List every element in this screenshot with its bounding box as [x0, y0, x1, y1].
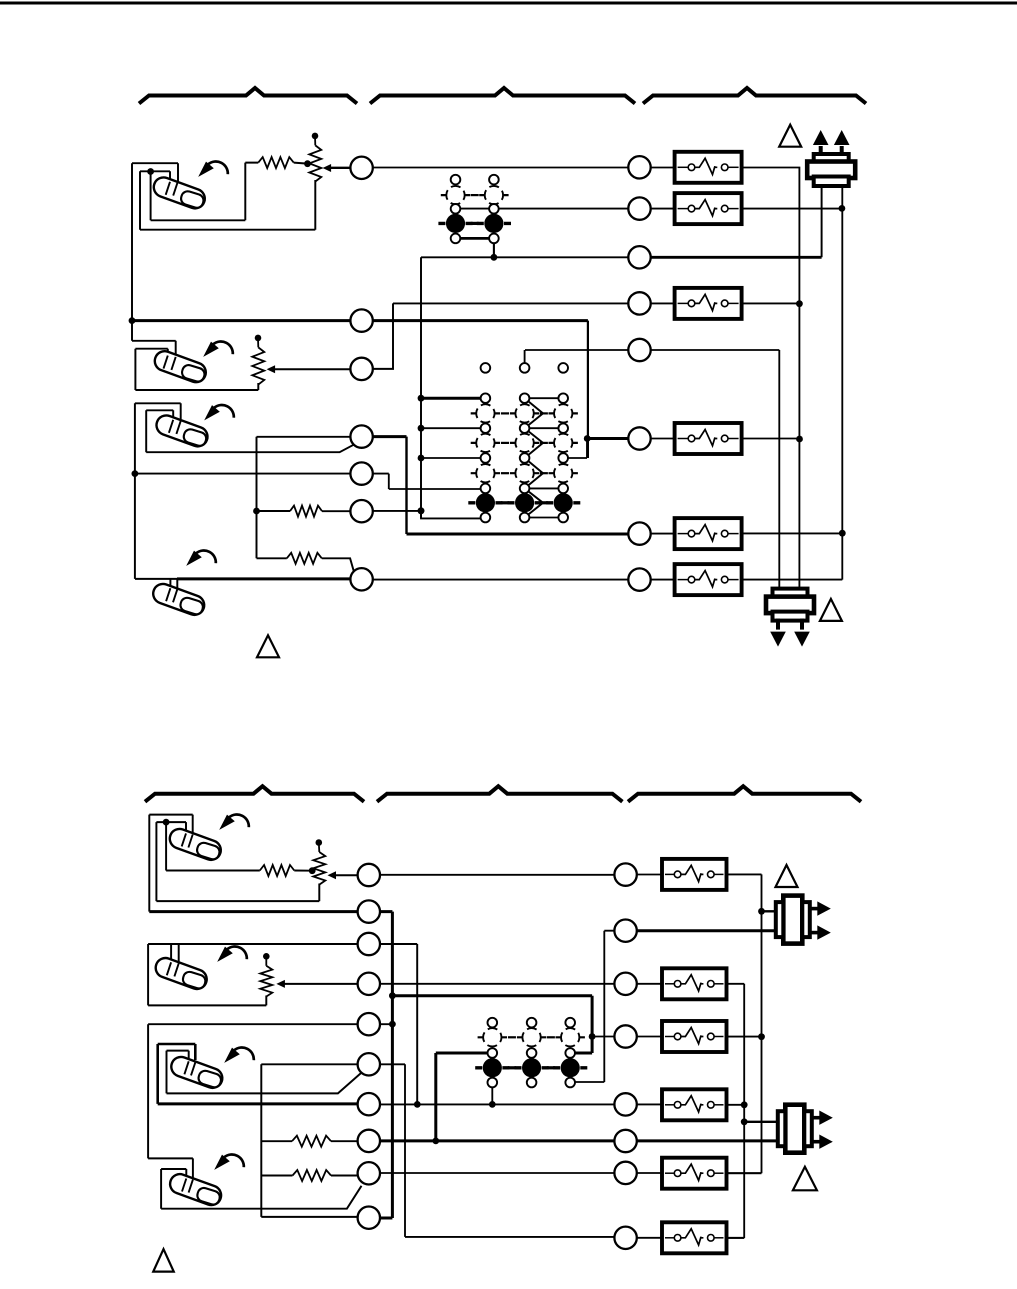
curved arrow bulb4	[186, 550, 216, 565]
curved arrow bulb3	[204, 405, 234, 420]
brace group 3 (bottom diagram)	[628, 786, 861, 802]
arrowhead pot2 wiper	[267, 365, 276, 373]
thermostat terminal BL10	[358, 1207, 380, 1229]
bulb1 electrode stubs	[166, 182, 178, 196]
relay contact block upper - open contacts	[441, 186, 470, 204]
relay terminal TR2	[628, 197, 650, 219]
wire R8 box output	[742, 186, 843, 580]
wire row3 terminal R3 bus	[421, 256, 628, 258]
wire matrix-b top bus	[392, 996, 592, 1053]
thermostat terminal BL5	[358, 1013, 380, 1035]
junction dot R2 output	[839, 205, 846, 212]
resistor bR2h	[292, 1136, 331, 1147]
wire mercury switch 2 lead b	[135, 349, 258, 390]
relay terminal BR1	[614, 863, 636, 885]
curved arrow bulb2	[203, 341, 233, 356]
thermostat terminal BL8	[358, 1130, 380, 1152]
wire row L6	[261, 1064, 614, 1237]
wire c6 to matrix	[373, 510, 421, 512]
wire R6 feed	[587, 437, 628, 440]
relay terminal TR4	[628, 292, 650, 314]
wire row L4-R3	[380, 983, 662, 985]
wire b-bulb1 tap to resistor	[166, 822, 260, 870]
wire row L3 and bulb2 leads	[148, 944, 417, 1104]
wire row L7 to R5	[369, 1103, 662, 1105]
relay matrix contact row 3	[471, 464, 500, 482]
wire box6 output	[726, 1172, 762, 1174]
junction dot b-pot1 left	[309, 867, 316, 874]
wire mercury switch 2 lead a	[132, 341, 176, 356]
potentiometer b-pot2	[260, 953, 272, 997]
wire resistor2 row	[257, 510, 351, 512]
heat relay BK2	[662, 968, 727, 999]
mercury switch b-bulb3	[169, 1054, 225, 1090]
heat relay BK3	[662, 1021, 727, 1052]
resistor R3h	[287, 553, 322, 564]
heat relay K6	[675, 564, 742, 595]
relay matrix terminal row 3	[481, 453, 491, 463]
wire row R2 left chain	[575, 931, 614, 1082]
wire matrix-b col1-mid chain	[436, 1053, 493, 1141]
curved arrow b-bulb1	[219, 814, 249, 829]
junction dot psym2 lead1	[741, 1118, 748, 1125]
wire v-bus to c4	[257, 437, 362, 559]
junction dot matrix t1	[418, 395, 425, 402]
relay matrix contact row 1	[471, 404, 500, 422]
junction dot row L5	[389, 1021, 396, 1028]
relay matrix terminal row 4	[481, 484, 491, 494]
wire box4 output	[727, 1036, 761, 1038]
relay matrix contact row 4	[468, 493, 502, 512]
b-bulb2 electrode stubs	[167, 962, 179, 976]
wire b-pot1 wiper	[332, 874, 358, 876]
wire row L2 bus	[149, 912, 392, 1218]
junction dot R6 output	[796, 436, 803, 443]
curved arrow b-bulb2	[217, 946, 247, 961]
wire row4 R4 link	[393, 302, 799, 304]
wire mercury switch 1 lead a	[132, 163, 178, 341]
junction dot c5 tap	[132, 470, 139, 477]
wire b-bulb1 lead a	[149, 815, 192, 912]
junction dot R7 output	[839, 530, 846, 537]
wire row c2 main bus	[132, 319, 588, 322]
wire row8 c8 to relay	[373, 579, 675, 581]
relay terminal BR6	[614, 1130, 636, 1152]
power supply BPS2 (arrows right)	[778, 1105, 833, 1153]
mercury switch bulb4	[150, 581, 206, 617]
junction dot c6 matrix	[418, 507, 425, 514]
wire col2 top drop	[524, 350, 526, 363]
wire R6 box output	[651, 438, 800, 440]
thermostat terminal BL7	[358, 1093, 380, 1115]
note triangle B1	[776, 865, 798, 887]
wire row R2 to psym1	[637, 929, 776, 932]
junction dot matrix-b col1 join	[489, 1101, 496, 1108]
thermostat terminal TL2	[350, 309, 372, 331]
junction dot matrix bottom	[418, 507, 425, 514]
mercury switch bulb3	[154, 413, 210, 449]
heat relay K1	[675, 152, 742, 183]
arrowhead pot1 wiper	[323, 164, 332, 172]
potentiometer pot2	[252, 335, 264, 385]
wire box3 output chain	[726, 984, 745, 1238]
wire matrix t2 feed	[421, 427, 485, 429]
note triangle B2	[793, 1167, 817, 1191]
wire mercury switch 3 lead b	[146, 410, 353, 452]
wire R7 to box	[651, 533, 675, 535]
junction dot matrix t3	[418, 455, 425, 462]
note triangle 2	[820, 599, 842, 621]
relay contact block upper - terminals row1	[451, 175, 461, 185]
wire row5 R5 link	[525, 350, 779, 589]
junction dot row R4 tap	[589, 1033, 596, 1040]
relay terminal BR2	[614, 920, 636, 942]
thermostat terminal TL3	[350, 358, 372, 380]
junction dot b-bulb1 tap	[163, 819, 170, 826]
junction dot row3-block	[491, 254, 498, 261]
wire left low bus	[261, 1064, 368, 1217]
wire matrix t1 feed	[421, 397, 485, 400]
wire R7 box output	[742, 532, 843, 534]
relay contact block upper - closed contacts	[438, 214, 472, 233]
relay terminal TR6	[628, 427, 650, 449]
wire matrix-b col1 bottom drop	[491, 1088, 493, 1105]
junction dot L3 riser join	[414, 1101, 421, 1108]
junction dot R4 output	[796, 300, 803, 307]
wire pot1 wiper	[329, 167, 351, 169]
power supply PS2 (arrows down)	[766, 589, 814, 647]
note triangle 1	[779, 125, 801, 147]
relay matrix-b open contact row	[478, 1028, 507, 1046]
relay matrix-b top terminals	[488, 1018, 498, 1028]
relay matrix-b mid terminals	[488, 1048, 498, 1058]
note triangle 3	[257, 635, 279, 657]
wire matrix col2-col3 links	[525, 398, 564, 517]
wire matrix col2 zigzag	[525, 398, 543, 517]
heat relay K5	[675, 518, 742, 549]
relay terminal BR7	[614, 1162, 636, 1184]
wire c5 to matrix t4	[373, 474, 486, 489]
wire bulb4 electrodes	[170, 579, 177, 591]
thermostat terminal TL7	[350, 568, 372, 590]
wire resistor3 row	[257, 558, 354, 571]
junction dot col1-mid join	[432, 1138, 439, 1145]
relay terminal TR1	[628, 156, 650, 178]
wire resistor bR3h row	[261, 1175, 359, 1177]
junction dot R6 feed	[584, 435, 591, 442]
wire b-pot2 wiper	[281, 983, 357, 985]
thermostat terminal TL5	[350, 462, 372, 484]
wire mercury switch 3 lead a	[135, 403, 181, 579]
heat relay BK1	[662, 859, 727, 890]
wire row2 contact to terminal R2 to supply bus	[456, 208, 842, 210]
resistor bR3h	[293, 1170, 332, 1181]
arrowhead b-pot2 wiper	[276, 980, 285, 988]
wire mercury switch 1 lead b	[140, 171, 315, 229]
junction dot psym1 lead1	[758, 908, 765, 915]
brace group 2 (wiring section, top diagram)	[370, 88, 635, 104]
wire row L5	[148, 1023, 392, 1025]
wire bulb4 to c8	[177, 577, 350, 580]
wire matrix t3 feed	[421, 457, 485, 459]
wire circle3 riser	[372, 303, 393, 369]
wire row L8-R6	[380, 1139, 778, 1142]
relay matrix-b bottom terminals	[488, 1078, 498, 1088]
wire L5 to b-bulb4 outer	[148, 1024, 193, 1180]
curved arrow b-bulb3	[224, 1047, 254, 1062]
potentiometer b-pot1	[313, 839, 325, 884]
wire matrix col3 t3 riser	[563, 439, 587, 459]
wire psym1 lead1	[762, 910, 776, 912]
curved arrow b-bulb4	[214, 1154, 244, 1169]
heat relay K2	[675, 193, 742, 224]
wire row R8	[637, 1237, 662, 1239]
resistor R1h heat anticipator	[258, 157, 293, 168]
wire c5 row	[135, 473, 351, 475]
wire resistor bR2h row	[261, 1140, 357, 1142]
brace group 2 (bottom diagram)	[377, 786, 622, 802]
curved arrow bulb1	[198, 161, 228, 176]
thermostat terminal BL9	[358, 1162, 380, 1184]
wire resistor to pot1	[294, 163, 308, 164]
relay contact block upper - terminals row2	[451, 204, 461, 214]
relay terminal TR8	[628, 568, 650, 590]
wire contact block bottom link	[456, 237, 494, 240]
b-bulb3 electrode stubs	[184, 1061, 195, 1075]
wire bulb1 tap to resistor R1h	[151, 163, 259, 221]
junction dot pot1 left	[304, 160, 311, 167]
mercury switch b-bulb2	[153, 955, 209, 991]
wire matrix bottom feed	[421, 511, 485, 519]
wire resistor to b-pot1	[294, 870, 312, 872]
power supply PS1 (arrows up)	[807, 130, 855, 186]
thermostat terminal TL6	[350, 500, 372, 522]
brace group 1 (thermostat section, top diagram)	[139, 88, 357, 104]
wire row R6 to psym2	[638, 1140, 778, 1142]
relay terminal TR5	[628, 339, 650, 361]
relay terminal BR3	[614, 973, 636, 995]
junction dot matrix-b top	[389, 992, 396, 999]
wire pot2 wiper to c3	[272, 368, 351, 370]
wire row L9-R7	[380, 1172, 662, 1174]
wire row L7 bus	[158, 1102, 369, 1105]
brace group 3 (equipment section, top diagram)	[643, 88, 866, 104]
relay terminal BR4	[614, 1025, 636, 1047]
heat relay BK6	[662, 1222, 727, 1253]
thermostat terminal BL2	[358, 900, 380, 922]
arrowhead b-pot1 wiper	[328, 871, 337, 879]
junction dot box5 output	[741, 1101, 748, 1108]
wire row R4	[592, 1036, 662, 1038]
mercury switch bulb2	[152, 348, 208, 384]
relay matrix terminal row 5	[481, 513, 491, 523]
heat relay BK4	[662, 1089, 727, 1120]
junction dot bulb1 tap	[147, 168, 154, 175]
wire mercury switch 4 leads	[135, 578, 177, 580]
thermostat terminal BL6	[358, 1053, 380, 1075]
relay terminal TR3	[628, 246, 650, 268]
wire b-bulb1 lead b	[156, 822, 319, 901]
relay contact block upper - terminals row3	[451, 234, 461, 244]
wire box8 to bus	[727, 1237, 744, 1239]
thermostat terminal TL4	[350, 425, 372, 447]
resistor R2h	[290, 506, 322, 517]
bulb3 electrode stubs	[169, 420, 181, 434]
wire box1 output chain	[726, 874, 762, 1173]
relay terminal BR5	[614, 1093, 636, 1115]
b-bulb4 electrode stubs	[182, 1179, 193, 1193]
thermostat terminal BL1	[358, 864, 380, 886]
wire row R5 box output	[727, 1104, 744, 1106]
relay matrix terminal row 1	[481, 393, 491, 403]
resistor bR1h	[260, 865, 295, 876]
relay matrix-b closed contact row	[475, 1058, 509, 1077]
thermostat terminal BL3	[358, 933, 380, 955]
bulb2 electrode stubs	[164, 356, 176, 370]
mercury switch bulb1	[151, 175, 207, 211]
wire b-bulb3 inner	[167, 1051, 362, 1094]
thermostat terminal TL1	[350, 157, 372, 179]
wire psym2 lead1	[744, 1121, 778, 1123]
wire b-bulb4 inner	[161, 1169, 361, 1209]
heat relay BK5	[662, 1158, 727, 1189]
junction dot c2 left	[129, 317, 136, 324]
wire c4 to R7 bus	[361, 435, 407, 438]
note triangle B3	[153, 1249, 174, 1272]
thermostat terminal BL4	[358, 973, 380, 995]
power supply BPS1 (arrows right)	[776, 896, 831, 944]
relay terminal TR7	[628, 522, 650, 544]
relay matrix contact row 2	[471, 434, 500, 452]
brace group 1 (bottom diagram)	[145, 786, 364, 802]
wire row L1-R1	[380, 874, 614, 876]
bulb4 electrode stubs	[166, 588, 177, 602]
relay terminal BR8	[614, 1227, 636, 1249]
wire BR1 to box	[637, 874, 662, 876]
relay matrix top terminals	[481, 363, 491, 373]
wire matrix feed vertical	[420, 257, 422, 518]
wire row1 heat-cool to terminal R1 and supply riser	[329, 168, 799, 589]
potentiometer pot1	[309, 133, 321, 182]
heat relay K4	[675, 423, 742, 454]
b-bulb1 electrode stubs	[182, 833, 193, 847]
relay matrix terminal row 2	[481, 423, 491, 433]
mercury switch b-bulb1	[167, 826, 223, 862]
wire b-bulb3 thick box	[158, 1044, 196, 1104]
heat relay K3	[675, 288, 742, 319]
junction dot resistor2 tap	[253, 508, 260, 515]
junction dot matrix t2	[418, 425, 425, 432]
mercury switch b-bulb4	[167, 1171, 223, 1207]
top border rule	[0, 2, 1017, 5]
junction dot box4 output	[758, 1033, 765, 1040]
